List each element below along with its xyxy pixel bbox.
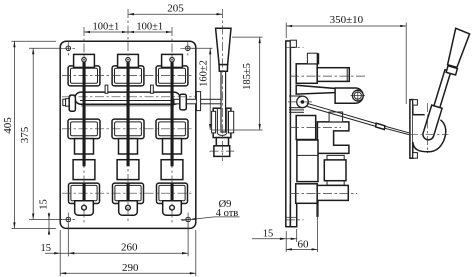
handle bracket flange (side) <box>410 100 418 159</box>
operating rod to handle (front) <box>174 99 221 104</box>
svg-text:375: 375 <box>19 126 31 143</box>
svg-text:15: 15 <box>263 228 274 239</box>
side hinge upright <box>307 53 317 64</box>
side blade top dark <box>317 53 319 64</box>
dimension 15 side view <box>252 228 297 252</box>
pole 1 insulator block <box>73 160 95 180</box>
side bottom terminal stud <box>317 185 348 200</box>
svg-text:100±1: 100±1 <box>93 22 120 33</box>
crossbar right end link <box>180 94 187 110</box>
svg-text:260: 260 <box>121 241 138 253</box>
svg-text:15: 15 <box>39 199 50 210</box>
dimension 60 <box>286 205 318 252</box>
bottom jaw row centerline <box>62 192 194 194</box>
side clevis pin <box>351 88 365 102</box>
side view panel <box>286 40 297 227</box>
pole 1 blade <box>83 60 86 167</box>
side top tab centerline <box>286 47 304 49</box>
hole crosshairs bottom <box>61 213 195 227</box>
pole 2 middle break jaw <box>112 119 144 139</box>
handle centerline (front) <box>222 9 224 161</box>
dimension 205 <box>128 3 223 16</box>
handle grip (front) <box>216 28 231 64</box>
hole crosshairs top <box>61 42 195 56</box>
mounting hole top-right <box>186 46 191 51</box>
handle shaft (side) <box>431 70 451 117</box>
dimension 375 <box>19 48 62 219</box>
handle hub boss capsule (side) <box>423 105 442 140</box>
dimension 100±1 left <box>84 22 128 34</box>
side C-shaped jaw <box>317 122 349 153</box>
dimension 185±5 <box>232 37 263 130</box>
side knife end in jaw <box>329 112 343 122</box>
side row2 centerline <box>290 127 341 129</box>
pole 3 hinge cap <box>162 54 183 67</box>
hinge row centerline <box>62 75 194 77</box>
crossbar left end link <box>63 95 76 111</box>
dimension 100±1 right <box>128 22 172 34</box>
handle grip (side) <box>448 28 470 67</box>
pole 1 blade clamp <box>75 139 94 154</box>
pole centerline 2 <box>127 9 129 224</box>
rod support bushing at plate edge <box>196 92 200 111</box>
bracket pivot centerline <box>211 129 234 131</box>
side lower pivot bracket <box>289 96 304 112</box>
side arc chute square <box>324 155 346 185</box>
bellcrank hub (side) <box>413 105 446 152</box>
dimension 15 vertical left <box>39 199 51 235</box>
handle ferrule (side) <box>446 66 457 75</box>
handle shaft (front) <box>221 71 226 132</box>
pole 3 contact stack <box>156 54 188 215</box>
pole 2 hinge pin <box>126 58 130 62</box>
handle pivot bracket (front) <box>212 108 234 137</box>
middle jaw row centerline <box>62 128 194 130</box>
side row3 insulator <box>297 140 318 182</box>
pole 1 hinge cap <box>74 54 95 67</box>
pole 2 blade clamp <box>119 139 138 154</box>
pole centerline 3 <box>171 27 173 224</box>
bellcrank centerlines <box>409 103 449 153</box>
pole 2 bottom terminal cap <box>119 201 138 215</box>
crossbar pin 1 <box>105 85 108 93</box>
dimension 350±10 <box>286 14 406 104</box>
handle ferrule (front) <box>219 65 228 72</box>
pole 1 bottom contact jaw <box>69 183 100 203</box>
dimension 405 <box>2 41 56 228</box>
side row1 centerline <box>290 75 366 77</box>
pole 1 hinge pin <box>82 58 86 62</box>
svg-text:60: 60 <box>298 238 310 250</box>
pole centerline 1 <box>83 27 85 224</box>
svg-text:4 отв: 4 отв <box>216 208 239 219</box>
pole 2 bottom contact jaw <box>113 183 144 203</box>
front view mounting plate <box>60 41 196 228</box>
pole 2 blade <box>127 60 130 167</box>
handle lower stop box (front) <box>214 138 230 157</box>
pole 3 insulator block <box>161 160 183 180</box>
pole 1 bottom terminal cap <box>75 201 94 215</box>
svg-text:405: 405 <box>2 117 14 134</box>
hole callout Ø9 4 holes <box>182 199 240 220</box>
svg-text:160±2: 160±2 <box>199 60 210 87</box>
side top terminal stud <box>317 68 349 82</box>
pole 2 hinge contact jaw <box>112 66 144 86</box>
mounting hole bottom-right <box>186 217 191 222</box>
pole 2 contact stack <box>112 54 144 215</box>
svg-text:205: 205 <box>167 3 184 15</box>
dimension 290 <box>60 262 196 275</box>
pole 3 bottom terminal cap <box>163 201 182 215</box>
svg-text:15: 15 <box>40 243 51 254</box>
mounting hole bottom-left <box>66 217 71 222</box>
pole 3 hinge pin <box>170 58 174 62</box>
side row1 insulator <box>296 64 317 84</box>
side pivot centerline <box>288 101 312 103</box>
dimension 160±2 <box>190 48 213 130</box>
side row2 insulator <box>296 116 316 140</box>
pole 3 blade <box>171 60 174 167</box>
pole 2 insulator block <box>117 160 139 180</box>
side row4 insulator <box>296 184 318 204</box>
pole 1 contact stack <box>68 54 100 215</box>
pole 1 hinge contact jaw <box>68 66 100 86</box>
pole 1 middle break jaw <box>68 119 100 139</box>
side lower pivot <box>297 96 309 108</box>
svg-text:185±5: 185±5 <box>242 63 253 90</box>
side row4 centerline <box>290 192 357 194</box>
crossbar (square insulated shaft) <box>75 92 180 106</box>
svg-text:290: 290 <box>122 262 139 274</box>
crossbar centerline <box>62 96 196 98</box>
svg-text:100±1: 100±1 <box>136 22 163 33</box>
side knife band <box>296 85 337 94</box>
svg-text:350±10: 350±10 <box>330 14 364 26</box>
side knife bottom tip <box>316 200 318 217</box>
crossbar pin 2 <box>151 85 154 93</box>
pole 3 middle break jaw <box>156 119 188 139</box>
pole 2 hinge cap <box>118 54 139 67</box>
side operating rod <box>306 103 409 134</box>
side clevis link <box>335 88 363 103</box>
pole 3 blade clamp <box>163 139 182 154</box>
dimension 15 bottom + 260 <box>40 223 195 277</box>
side bottom hole centerline <box>286 219 304 221</box>
stop box cross centerlines <box>210 150 235 152</box>
pole 3 hinge contact jaw <box>156 66 188 86</box>
mounting hole top-left <box>66 46 71 51</box>
pole 3 bottom contact jaw <box>157 183 188 203</box>
